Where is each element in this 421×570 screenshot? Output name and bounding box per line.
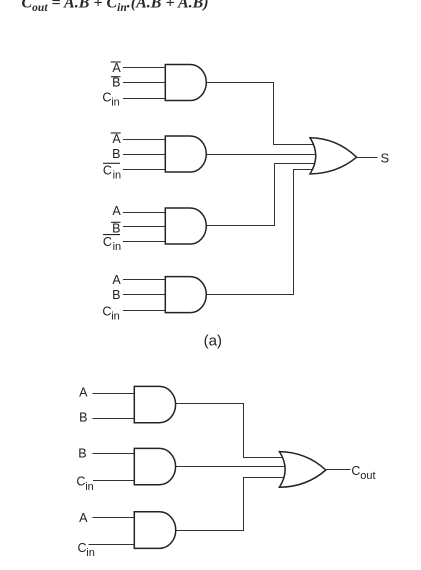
svg-text:in: in: [86, 547, 95, 559]
wire U3 output to OR U5 (elbow up): [206, 164, 317, 226]
wire U2 input 3: [123, 169, 166, 171]
svg-text:B: B: [112, 147, 120, 161]
svg-text:out: out: [360, 470, 375, 482]
OR gate U5: [310, 138, 357, 174]
AND gate U4: [165, 277, 206, 313]
wire S output: [356, 157, 378, 159]
wire U1 input 1: [123, 67, 166, 69]
wire U3 input 1: [123, 212, 166, 214]
node Abar label (gate U1 input 1): [111, 61, 122, 75]
svg-text:C: C: [103, 235, 112, 249]
wire U6 output to OR U9 (elbow down): [176, 404, 286, 458]
wire U6 input 1: [93, 393, 136, 395]
svg-text:(a): (a): [204, 333, 222, 350]
svg-text:B: B: [78, 447, 86, 461]
wire U7 input 2: [93, 480, 135, 482]
OR gate U9: [279, 452, 325, 488]
svg-text:C: C: [351, 464, 360, 478]
node Cin label (gate U1 input 3): [102, 91, 119, 109]
node Bbar label (gate U1 input 2): [111, 75, 121, 89]
svg-text:in: in: [85, 481, 94, 493]
wire U1 output to OR U5 (elbow down): [206, 83, 317, 145]
wire U7 output to OR U9 (straight): [176, 466, 286, 468]
node Cin label (gate U7 input 2): [76, 475, 93, 493]
svg-text:B: B: [79, 411, 87, 425]
wire U1 input 3: [123, 98, 166, 100]
svg-text:in: in: [113, 169, 122, 181]
wire U2 input 1: [123, 139, 166, 141]
svg-text:A: A: [79, 511, 88, 525]
node Abar label (gate U2 input 1): [111, 132, 122, 146]
svg-text:in: in: [111, 97, 120, 109]
svg-text:B: B: [112, 221, 120, 235]
wire U4 input 3: [123, 310, 166, 312]
wire U3 input 2: [123, 226, 166, 228]
svg-text:in: in: [113, 241, 122, 253]
AND gate U1: [165, 65, 206, 101]
wire U4 output to OR U5 (elbow up): [206, 170, 316, 295]
AND gate U2: [165, 136, 206, 172]
svg-text:C: C: [102, 91, 111, 105]
svg-text:C: C: [76, 475, 85, 489]
wire U3 input 3: [123, 241, 166, 243]
svg-text:C: C: [102, 305, 111, 319]
wire U8 input 2: [89, 544, 136, 546]
svg-text:B: B: [112, 75, 120, 89]
wire U4 input 2: [123, 294, 166, 296]
wire U7 input 1: [93, 453, 136, 455]
svg-text:in: in: [111, 311, 120, 323]
AND gate U6: [134, 386, 175, 422]
AND gate U3: [165, 208, 206, 244]
svg-text:A: A: [112, 61, 121, 75]
node Cin label (gate U8 input 2): [78, 541, 95, 559]
node Cin label (gate U4 input 3): [102, 305, 119, 323]
svg-text:C: C: [78, 541, 87, 555]
svg-text:A: A: [112, 204, 121, 218]
AND gate U8: [134, 512, 175, 549]
svg-text:A: A: [79, 386, 88, 400]
wire U6 input 2: [93, 418, 136, 420]
svg-text:S: S: [380, 151, 389, 166]
svg-text:A: A: [112, 273, 121, 287]
node Cinbar label (gate U2 input 3): [103, 163, 121, 181]
svg-text:C: C: [103, 163, 112, 177]
node Cout label: [351, 464, 375, 482]
wire U1 input 2: [123, 82, 166, 84]
wire U2 output to OR U5 (straight): [206, 154, 317, 156]
svg-text:A: A: [112, 132, 121, 146]
wire U8 input 1: [93, 517, 136, 519]
wire U2 input 2: [123, 154, 166, 156]
formula Cout = A.B + Cin.(A.B + A.B) (top, partially cropped): [22, 0, 209, 14]
wire Cout output: [325, 469, 351, 471]
node Bbar label (gate U3 input 2): [111, 221, 121, 235]
wire U4 input 1: [123, 279, 166, 281]
wire U8 output to OR U9 (elbow up): [176, 478, 286, 531]
AND gate U7: [134, 448, 175, 484]
svg-text:B: B: [112, 288, 120, 302]
node Cinbar label (gate U3 input 3): [103, 235, 121, 253]
